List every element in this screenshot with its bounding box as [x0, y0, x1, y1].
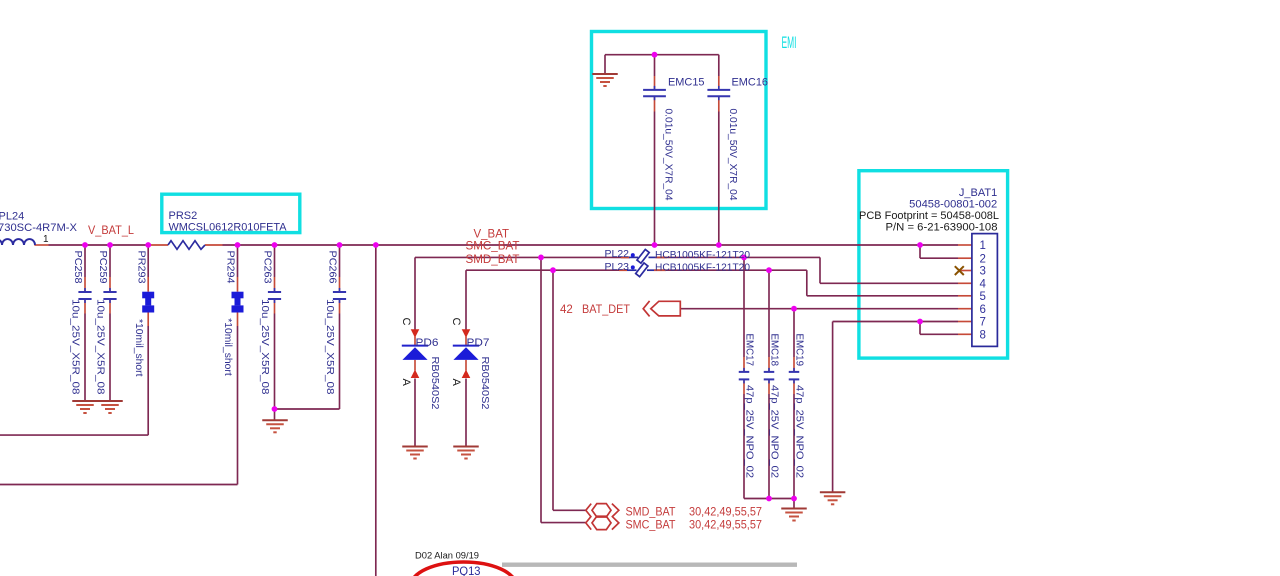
svg-text:1: 1 [43, 234, 49, 245]
svg-text:1: 1 [980, 240, 986, 252]
svg-text:47p_25V_NPO_02: 47p_25V_NPO_02 [794, 385, 805, 478]
svg-text:*10mil_short: *10mil_short [133, 319, 144, 377]
svg-text:C: C [450, 318, 462, 326]
svg-text:PRS2: PRS2 [169, 210, 198, 222]
svg-text:EMC17: EMC17 [744, 334, 755, 367]
svg-text:J_BAT1: J_BAT1 [959, 187, 997, 199]
svg-text:SMC_BAT: SMC_BAT [466, 239, 521, 253]
svg-text:PD7: PD7 [467, 337, 490, 349]
svg-text:3: 3 [980, 266, 986, 278]
svg-text:PR293: PR293 [135, 251, 146, 284]
svg-text:HCB1005KF-121T20: HCB1005KF-121T20 [655, 262, 750, 274]
svg-text:0.01u_50V_X7R_04: 0.01u_50V_X7R_04 [727, 109, 738, 201]
svg-text:2: 2 [980, 253, 986, 265]
svg-text:EMC15: EMC15 [668, 77, 705, 89]
svg-text:730SC-4R7M-X: 730SC-4R7M-X [0, 222, 78, 234]
svg-text:PC266: PC266 [327, 251, 338, 284]
svg-text:A: A [450, 379, 462, 387]
svg-text:47p_25V_NPO_02: 47p_25V_NPO_02 [744, 385, 755, 478]
svg-text:30,42,49,55,57: 30,42,49,55,57 [689, 519, 762, 531]
svg-text:RB0540S2: RB0540S2 [479, 357, 490, 410]
svg-text:PC263: PC263 [262, 251, 273, 284]
svg-text:10u_25V_X5R_08: 10u_25V_X5R_08 [324, 299, 335, 395]
svg-text:50458-00801-002: 50458-00801-002 [909, 198, 997, 210]
svg-text:PC258: PC258 [72, 251, 83, 284]
svg-text:5: 5 [980, 291, 986, 303]
svg-text:D02 Alan 09/19: D02 Alan 09/19 [415, 551, 479, 561]
svg-text:PD6: PD6 [416, 337, 439, 349]
svg-text:V_BAT_L: V_BAT_L [88, 223, 134, 237]
svg-text:HCB1005KF-121T20: HCB1005KF-121T20 [655, 249, 750, 261]
svg-text:8: 8 [980, 330, 986, 342]
svg-text:SMD_BAT: SMD_BAT [626, 507, 676, 519]
svg-text:RB0540S2: RB0540S2 [429, 357, 440, 410]
svg-text:10u_25V_X5R_08: 10u_25V_X5R_08 [70, 299, 81, 395]
svg-text:EMC16: EMC16 [732, 77, 769, 89]
svg-text:A: A [400, 379, 412, 387]
svg-text:10u_25V_X5R_08: 10u_25V_X5R_08 [95, 299, 106, 395]
svg-text:42: 42 [560, 304, 573, 316]
svg-text:*10mil_short: *10mil_short [222, 318, 233, 376]
svg-text:EMC18: EMC18 [769, 334, 780, 367]
svg-text:PL22: PL22 [605, 248, 630, 260]
svg-text:PR294: PR294 [225, 251, 236, 284]
svg-text:EMC19: EMC19 [794, 334, 805, 367]
svg-text:WMCSL0612R010FETA: WMCSL0612R010FETA [169, 221, 288, 233]
svg-text:PC259: PC259 [97, 251, 108, 284]
svg-text:PCB Footprint = 50458-008L: PCB Footprint = 50458-008L [859, 210, 999, 222]
svg-text:SMD_BAT: SMD_BAT [466, 252, 521, 266]
svg-text:4: 4 [980, 279, 987, 291]
svg-text:PL24: PL24 [0, 211, 24, 223]
svg-text:10u_25V_X5R_08: 10u_25V_X5R_08 [259, 299, 270, 395]
svg-text:C: C [400, 318, 412, 326]
svg-text:EMI: EMI [782, 33, 797, 52]
svg-text:PL23: PL23 [605, 261, 630, 273]
svg-text:30,42,49,55,57: 30,42,49,55,57 [689, 507, 762, 519]
svg-text:6: 6 [980, 304, 986, 316]
svg-text:PQ13: PQ13 [452, 564, 481, 576]
svg-text:BAT_DET: BAT_DET [582, 304, 630, 316]
svg-text:SMC_BAT: SMC_BAT [626, 519, 676, 531]
svg-text:7: 7 [980, 317, 986, 329]
svg-text:47p_25V_NPO_02: 47p_25V_NPO_02 [769, 385, 780, 478]
svg-text:0.01u_50V_X7R_04: 0.01u_50V_X7R_04 [663, 109, 674, 201]
svg-text:P/N = 6-21-63900-108: P/N = 6-21-63900-108 [886, 222, 998, 234]
